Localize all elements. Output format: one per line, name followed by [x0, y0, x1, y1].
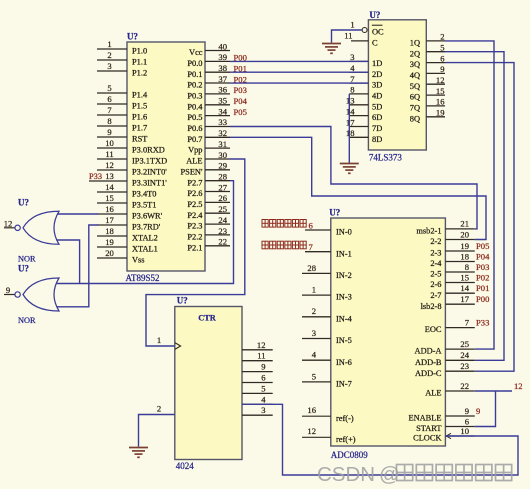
watermark CJK char 1 [397, 465, 413, 481]
svg-text:CSDN: CSDN [317, 463, 375, 486]
U3 CLOCK input arrow [446, 433, 451, 438]
svg-text:P1.1: P1.1 [132, 58, 147, 67]
svg-text:P1.6: P1.6 [132, 113, 147, 122]
watermark CJK char 6 [496, 465, 512, 481]
svg-text:5D: 5D [372, 102, 382, 111]
svg-text:12: 12 [307, 426, 316, 436]
svg-text:NOR: NOR [18, 316, 36, 325]
svg-text:36: 36 [218, 85, 227, 95]
CJK char 3 of smoke sensor label [277, 220, 283, 228]
svg-text:5Q: 5Q [410, 82, 420, 91]
U3 analog input pins IN-0..IN-7 stubs, numbers, labels [302, 228, 353, 389]
wire U1 ALE pin 30 to U4 clock pin 1 [146, 159, 245, 346]
svg-text:6Q: 6Q [410, 93, 420, 102]
svg-text:6D: 6D [372, 113, 382, 122]
svg-text:ALE: ALE [186, 157, 202, 166]
svg-text:8D: 8D [372, 135, 382, 144]
wire U2 3Q pin 6 to U3 ADD-C pin 23 [445, 63, 514, 372]
svg-text:19: 19 [105, 237, 114, 247]
U2 OC pin 1 with bubble [362, 28, 367, 33]
svg-text:17: 17 [105, 215, 114, 225]
svg-text:P2.2: P2.2 [187, 233, 202, 242]
svg-text:IN-1: IN-1 [336, 249, 352, 258]
CJK char 3 of temperature sensor label [277, 241, 283, 249]
svg-text:IN-3: IN-3 [336, 293, 352, 302]
svg-text:3Q: 3Q [410, 60, 420, 69]
CJK char 1 of temperature sensor label [262, 241, 268, 249]
svg-text:P3.0RXD: P3.0RXD [132, 146, 165, 155]
svg-text:ENABLE: ENABLE [408, 414, 441, 423]
svg-text:2-6: 2-6 [430, 280, 441, 289]
U4 output pins stubs and numbers (12,11,9,6,5,4,3) [242, 340, 273, 415]
svg-text:P1.5: P1.5 [132, 102, 147, 111]
svg-text:1: 1 [107, 39, 111, 49]
svg-text:P3.5T1: P3.5T1 [132, 201, 156, 210]
microcontroller U1 AT89S52 body [127, 42, 205, 271]
svg-text:16: 16 [307, 405, 316, 415]
wire net P00: U1 P0.0 pin 39 to U2 1D pin 3 [230, 60, 368, 62]
U2 Q output pins 1Q-8Q stubs, numbers, labels [410, 32, 445, 124]
svg-text:5: 5 [261, 383, 265, 393]
svg-text:U?: U? [177, 296, 188, 306]
svg-text:U?: U? [127, 32, 138, 42]
svg-text:14: 14 [346, 106, 355, 116]
svg-text:XTAL1: XTAL1 [132, 245, 158, 254]
wire U4 output pin 4 to U3 CLOCK pin 10 [242, 404, 518, 475]
svg-text:U?: U? [329, 208, 340, 218]
latch U2 74LS373 body [368, 20, 426, 150]
svg-text:P05: P05 [234, 107, 247, 117]
svg-text:1: 1 [157, 335, 161, 345]
svg-text:P0.7: P0.7 [187, 135, 202, 144]
svg-text:PSEN': PSEN' [181, 167, 203, 176]
svg-text:8Q: 8Q [410, 114, 420, 123]
svg-text:18: 18 [346, 128, 355, 138]
svg-text:25: 25 [218, 204, 227, 214]
wire U4 pin 2 to ground [139, 415, 175, 447]
wire net P02: U1 P0.2 pin 37 to U2 3D pin 7 [230, 82, 368, 84]
svg-text:18: 18 [460, 251, 469, 261]
svg-text:22: 22 [460, 381, 469, 391]
svg-text:2: 2 [312, 306, 316, 316]
svg-text:4: 4 [261, 394, 266, 404]
svg-text:7Q: 7Q [410, 104, 420, 113]
svg-text:31: 31 [218, 139, 227, 149]
svg-text:P0.2: P0.2 [187, 81, 202, 90]
wire U2 2Q pin 5 to U3 ADD-B pin 24 [445, 52, 504, 361]
svg-text:P1.4: P1.4 [132, 91, 148, 100]
svg-text:P2.6: P2.6 [187, 189, 202, 198]
svg-text:P03: P03 [476, 262, 489, 272]
svg-text:P2.1: P2.1 [187, 243, 202, 252]
svg-text:8: 8 [350, 85, 354, 95]
svg-text:14: 14 [460, 283, 469, 293]
wire net P01: U1 P0.1 pin 38 to U2 2D pin 4 [230, 71, 368, 73]
svg-text:9: 9 [465, 406, 469, 416]
svg-text:7: 7 [465, 317, 470, 327]
CJK char 2 of temperature sensor label [270, 241, 276, 249]
watermark CJK char 5 [476, 465, 492, 481]
watermark CJK char 4 [456, 465, 472, 481]
svg-text:4: 4 [312, 350, 317, 360]
svg-text:P2.7: P2.7 [187, 178, 202, 187]
svg-text:RST: RST [132, 135, 147, 144]
svg-text:15: 15 [105, 193, 114, 203]
svg-text:msb2-1: msb2-1 [416, 227, 441, 236]
svg-text:IN-2: IN-2 [336, 271, 352, 280]
NOR gate gate U5B lower NOR [15, 278, 59, 311]
wire U1 P2.7 pin 28 to NOR gate inputs node [57, 181, 234, 284]
svg-text:13: 13 [346, 96, 355, 106]
wire U1 P0.6 pin 33 to U3 msb2-1 pin 21 [230, 127, 477, 229]
svg-text:P3.3INT1': P3.3INT1' [132, 179, 167, 188]
svg-text:5: 5 [440, 43, 444, 53]
svg-text:2D: 2D [372, 70, 382, 79]
svg-text:U?: U? [369, 10, 380, 20]
svg-text:11: 11 [105, 149, 113, 159]
svg-text:23: 23 [460, 361, 469, 371]
svg-text:21: 21 [460, 219, 469, 229]
svg-text:16: 16 [105, 204, 114, 214]
svg-text:EOC: EOC [425, 325, 442, 334]
CJK char 4 of smoke sensor label [285, 220, 291, 228]
svg-text:IN-5: IN-5 [336, 336, 352, 345]
svg-text:2: 2 [107, 50, 111, 60]
wire U2 OC pin to ground [332, 30, 362, 43]
svg-text:P05: P05 [476, 241, 489, 251]
svg-text:ref(-): ref(-) [336, 414, 354, 423]
svg-text:P2.5: P2.5 [187, 200, 202, 209]
svg-text:P04: P04 [476, 251, 490, 261]
svg-text:ALE: ALE [425, 389, 441, 398]
svg-text:74LS373: 74LS373 [369, 153, 403, 163]
svg-text:12: 12 [4, 218, 13, 228]
svg-text:P3.4T0: P3.4T0 [132, 190, 156, 199]
svg-text:P3.2INT0': P3.2INT0' [132, 168, 167, 177]
CJK char 6 of smoke sensor label [300, 220, 306, 228]
svg-text:8: 8 [465, 262, 469, 272]
svg-text:20: 20 [105, 248, 114, 258]
svg-text:37: 37 [218, 74, 227, 84]
svg-text:IN-4: IN-4 [336, 314, 353, 323]
svg-text:1Q: 1Q [410, 39, 420, 48]
ground below U2 8D inputs [340, 164, 359, 174]
svg-text:6: 6 [309, 220, 314, 230]
svg-text:START: START [416, 424, 441, 433]
svg-text:7: 7 [107, 105, 112, 115]
svg-text:6: 6 [465, 416, 470, 426]
svg-text:24: 24 [218, 215, 227, 225]
svg-text:P1.7: P1.7 [132, 124, 147, 133]
ADC U3 ADC0809 body [331, 218, 446, 446]
svg-text:6: 6 [261, 373, 266, 383]
svg-text:P0.5: P0.5 [187, 113, 202, 122]
svg-text:2-3: 2-3 [430, 249, 441, 258]
svg-text:6: 6 [107, 94, 112, 104]
svg-text:3D: 3D [372, 81, 382, 90]
svg-text:6: 6 [440, 53, 445, 63]
counter U4 4024 body [175, 307, 242, 460]
svg-text:P00: P00 [476, 294, 489, 304]
svg-text:15: 15 [436, 86, 445, 96]
svg-text:24: 24 [460, 350, 469, 360]
svg-text:9: 9 [6, 285, 10, 295]
svg-text:11: 11 [257, 351, 265, 361]
svg-text:CTR: CTR [198, 314, 217, 323]
svg-text:9: 9 [261, 362, 265, 372]
svg-text:9: 9 [107, 127, 111, 137]
svg-text:AT89S52: AT89S52 [126, 273, 160, 283]
svg-text:25: 25 [460, 339, 469, 349]
svg-text:7D: 7D [372, 124, 382, 133]
svg-text:11: 11 [344, 30, 352, 40]
svg-text:P1.0: P1.0 [132, 47, 147, 56]
svg-text:P33: P33 [89, 172, 102, 181]
svg-text:12: 12 [257, 340, 266, 350]
svg-text:P0.4: P0.4 [187, 102, 203, 111]
CJK char 2 of smoke sensor label [270, 220, 276, 228]
wire U1 P0.7 pin 32 to U3 2-2 pin 20 [230, 137, 486, 239]
svg-text:U?: U? [18, 198, 29, 208]
svg-text:22: 22 [218, 237, 227, 247]
svg-text:17: 17 [346, 117, 355, 127]
wire U3 ALE to U3 START pin 6 [475, 391, 496, 427]
svg-text:P0.6: P0.6 [187, 124, 202, 133]
svg-text:2: 2 [440, 32, 444, 42]
svg-text:C: C [372, 39, 378, 48]
svg-text:4024: 4024 [176, 461, 195, 471]
wire junction U5A input 2 to U5B input 1 [57, 240, 80, 284]
CJK char 5 of smoke sensor label [292, 220, 298, 228]
svg-text:20: 20 [460, 229, 469, 239]
svg-text:29: 29 [218, 161, 227, 171]
svg-text:P33: P33 [476, 317, 489, 327]
svg-text:3: 3 [312, 328, 316, 338]
svg-text:19: 19 [460, 241, 469, 251]
svg-text:10: 10 [460, 426, 469, 436]
svg-text:Vcc: Vcc [189, 48, 203, 57]
svg-text:2-5: 2-5 [430, 270, 441, 279]
svg-text:16: 16 [436, 97, 445, 107]
svg-text:IN-0: IN-0 [336, 228, 352, 237]
watermark CJK char 2 [416, 465, 432, 481]
svg-text:P1.2: P1.2 [132, 69, 147, 78]
svg-text:9: 9 [476, 406, 480, 416]
U3 right side pins: data outputs, EOC, ADD-A/B/C, ALE, ENABLE, START, CLOCK [408, 219, 474, 443]
svg-text:P01: P01 [476, 283, 489, 293]
U1 right pin stubs, numbers and labels (pins 40-22) [181, 41, 231, 252]
svg-text:P04: P04 [234, 96, 248, 106]
svg-text:P2.3: P2.3 [187, 222, 202, 231]
ground at U2 OC pin [322, 44, 341, 54]
svg-text:33: 33 [218, 117, 227, 127]
svg-text:IP3.1TXD: IP3.1TXD [132, 157, 167, 166]
svg-text:39: 39 [218, 52, 227, 62]
U3 ref(+) pin 12 stub [302, 436, 331, 438]
svg-text:2: 2 [157, 403, 161, 413]
svg-text:5: 5 [107, 83, 111, 93]
svg-text:27: 27 [218, 182, 227, 192]
svg-text:2Q: 2Q [410, 49, 420, 58]
svg-text:9: 9 [440, 64, 444, 74]
svg-text:14: 14 [105, 182, 114, 192]
svg-text:lsb2-8: lsb2-8 [421, 302, 442, 311]
wire U1 P3.6WR pin 16 to U5A input 1 [57, 213, 98, 215]
svg-text:ADC0809: ADC0809 [331, 450, 369, 460]
watermark CJK char 3 [436, 465, 452, 481]
svg-text:ADD-C: ADD-C [415, 369, 442, 378]
svg-text:ADD-B: ADD-B [415, 358, 442, 367]
svg-text:28: 28 [218, 172, 227, 182]
CJK char 5 of temperature sensor label [292, 241, 298, 249]
svg-text:Vpp: Vpp [188, 146, 202, 155]
svg-text:CLOCK: CLOCK [413, 434, 441, 443]
svg-text:32: 32 [218, 128, 227, 138]
svg-text:5: 5 [312, 371, 316, 381]
svg-text:P0.3: P0.3 [187, 92, 202, 101]
svg-text:2-4: 2-4 [430, 259, 442, 268]
svg-text:P0.0: P0.0 [187, 59, 202, 68]
gate U5A upper NOR output wire pin 12 [4, 227, 15, 229]
svg-text:4Q: 4Q [410, 71, 420, 80]
svg-text:12: 12 [105, 160, 114, 170]
svg-text:35: 35 [218, 96, 227, 106]
U1 left pin stubs, numbers and labels (pins 1-20) [89, 39, 167, 264]
ground at U4 pin 2 [129, 448, 148, 458]
svg-text:XTAL2: XTAL2 [132, 234, 158, 243]
svg-text:Vss: Vss [132, 256, 145, 265]
CJK char 6 of temperature sensor label [300, 241, 306, 249]
U2 C pin 11 stub [351, 40, 368, 42]
svg-text:P3.6WR': P3.6WR' [132, 212, 163, 221]
svg-text:17: 17 [460, 294, 469, 304]
wire U2 1Q pin 2 to U3 ADD-A pin 25 [445, 41, 494, 349]
NOR gate gate U5A upper NOR [15, 211, 59, 244]
wire U2 4D-8D tie to ground [348, 94, 350, 163]
svg-text:40: 40 [218, 41, 227, 51]
svg-text:IN-7: IN-7 [336, 380, 352, 389]
svg-text:26: 26 [218, 193, 227, 203]
svg-text:10: 10 [105, 138, 114, 148]
svg-text:2-2: 2-2 [430, 237, 441, 246]
svg-text:1: 1 [350, 20, 354, 30]
svg-text:23: 23 [218, 226, 227, 236]
U4 clock input edge arrow [175, 343, 181, 350]
svg-text:ADD-A: ADD-A [415, 347, 442, 356]
svg-text:15: 15 [460, 272, 469, 282]
svg-text:2-7: 2-7 [430, 291, 441, 300]
svg-text:U?: U? [18, 264, 29, 274]
svg-text:P3.7RD': P3.7RD' [132, 223, 161, 232]
svg-text:12: 12 [514, 381, 523, 391]
svg-text:12: 12 [436, 75, 445, 85]
svg-text:3: 3 [107, 61, 111, 71]
svg-text:34: 34 [218, 106, 227, 116]
svg-text:NOR: NOR [18, 255, 36, 264]
CJK char 4 of temperature sensor label [285, 241, 291, 249]
CJK char 1 of smoke sensor label [262, 220, 268, 228]
gate U5B lower NOR output wire pin 9 [4, 294, 15, 296]
svg-text:IN-6: IN-6 [336, 358, 352, 367]
svg-text:38: 38 [218, 63, 227, 73]
svg-text:ref(+): ref(+) [336, 435, 356, 444]
svg-text:13: 13 [105, 171, 114, 181]
svg-text:19: 19 [436, 108, 445, 118]
svg-text:3: 3 [261, 405, 265, 415]
svg-text:P0.1: P0.1 [187, 70, 202, 79]
svg-text:18: 18 [105, 226, 114, 236]
svg-text:8: 8 [107, 116, 111, 126]
svg-text:P03: P03 [234, 85, 247, 95]
svg-text:P02: P02 [476, 272, 489, 282]
svg-text:1D: 1D [372, 59, 382, 68]
svg-text:P2.4: P2.4 [187, 211, 203, 220]
wire U1 P3.7RD pin 17 to U5B input 2 [57, 225, 98, 307]
svg-text:28: 28 [307, 263, 316, 273]
svg-text:4D: 4D [372, 92, 382, 101]
U3 ref(-) pin 16 stub [302, 415, 331, 417]
U2 D input pins 1D-8D stubs, numbers, labels [346, 52, 382, 144]
svg-text:1: 1 [312, 285, 316, 295]
wire U3 ALE pin 22 net with label 12 [475, 390, 512, 392]
svg-text:OC: OC [372, 28, 384, 37]
svg-text:7: 7 [309, 242, 314, 252]
svg-text:30: 30 [218, 150, 227, 160]
